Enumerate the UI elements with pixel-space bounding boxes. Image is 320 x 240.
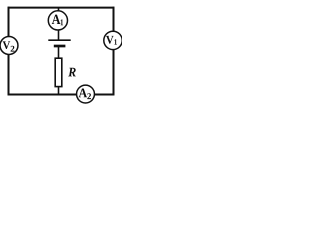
voltmeter V1: [104, 31, 122, 49]
label R: [68, 68, 76, 77]
wire middle stub top: [58, 8, 60, 12]
wire left lower: [8, 54, 10, 95]
wire battery to resistor: [58, 46, 60, 59]
wire top: [8, 7, 115, 9]
wire resistor to bottom: [58, 87, 60, 95]
ammeter A1: [48, 11, 67, 30]
voltmeter V2: [0, 37, 18, 55]
resistor R: [55, 58, 62, 86]
wire right upper: [113, 7, 115, 32]
wire bottom right: [94, 94, 115, 96]
wire right lower: [113, 49, 115, 95]
wire left upper: [8, 7, 10, 38]
ammeter A2: [77, 85, 95, 103]
battery long plate: [48, 39, 70, 41]
wire bottom left: [8, 94, 78, 96]
battery short plate: [54, 45, 66, 48]
wire A1 to battery: [58, 30, 60, 40]
